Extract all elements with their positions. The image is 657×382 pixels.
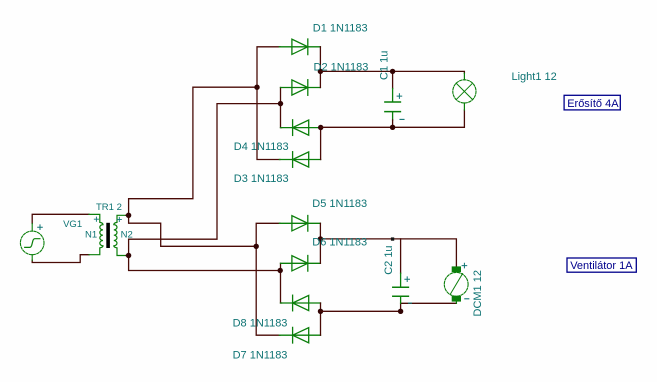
diode D6 1N1183 bbox=[281, 256, 321, 272]
capacitor C2 plates bbox=[393, 287, 409, 296]
wire D4 anode up to DC- node bbox=[320, 128, 322, 160]
wire VG1 bottom loop to TR1 primary bottom bbox=[32, 255, 89, 263]
wire N2 bottom to bridge2 AC2 bbox=[129, 256, 281, 271]
node C2 top (square) bbox=[391, 237, 394, 240]
diode D7 1N1183 bbox=[281, 295, 321, 311]
wire C2 junction to motor bottom bbox=[401, 303, 457, 311]
svg-text:D7 1N1183: D7 1N1183 bbox=[233, 350, 288, 362]
wire D8 anode up to DC- node bbox=[320, 311, 322, 335]
N2 plus mark bbox=[117, 217, 121, 221]
N1 plus mark bbox=[94, 217, 98, 221]
diode D5 1N1183 bbox=[279, 216, 320, 232]
transformer TR1 primary winding N1 bbox=[89, 214, 103, 254]
wire D6 cathode up to DC+ node bbox=[319, 239, 321, 263]
VG1 plus mark bbox=[38, 225, 43, 230]
motor plus mark bbox=[462, 263, 467, 268]
wire bridge2 AC2 rail to D6 and D7 bbox=[281, 263, 282, 303]
wire D2 cathode up to DC+ node bbox=[319, 71, 321, 87]
wire N2 bottom to bridge1 AC2 bbox=[126, 104, 281, 256]
node bridge1 AC2 bbox=[278, 101, 283, 106]
capacitor C2 bottom lead bbox=[400, 297, 402, 303]
wire D5 cathode down to DC+ node bbox=[319, 223, 321, 239]
C2 plus mark bbox=[405, 277, 410, 282]
transformer TR1 core bbox=[106, 223, 110, 248]
voltage source VG1 bbox=[20, 224, 44, 261]
wire bridge2 AC1 rail to D5 and D8 bbox=[256, 223, 280, 335]
capacitor C1 top lead bbox=[392, 71, 394, 88]
node C2 bottom bbox=[398, 309, 403, 314]
svg-text:D2 1N1183: D2 1N1183 bbox=[314, 62, 369, 74]
wire bridge1 AC2 rail to D2 and D3 bbox=[281, 88, 282, 128]
svg-text:DCM1 12: DCM1 12 bbox=[472, 270, 484, 316]
node C1 bottom bbox=[390, 125, 395, 130]
wire bridge1 AC1 rail to D1 and D4 bbox=[257, 47, 280, 160]
lamp Light1 bbox=[453, 73, 476, 110]
node C1 top bbox=[390, 69, 395, 74]
svg-text:TR1 2: TR1 2 bbox=[96, 202, 122, 213]
wire VG1 top to TR1 primary bbox=[32, 214, 89, 223]
text box Ventilátor 1A bbox=[567, 258, 636, 272]
C2 minus mark bbox=[409, 302, 412, 304]
node bridge2 AC1 bbox=[254, 244, 259, 249]
node bridge1 AC1 bbox=[254, 85, 259, 90]
svg-text:D8 1N1183: D8 1N1183 bbox=[233, 317, 288, 329]
svg-text:VG1: VG1 bbox=[63, 219, 82, 230]
wire D1 cathode down to DC+ node bbox=[319, 47, 321, 72]
node bridge2 DC- bbox=[318, 309, 323, 314]
text box Erősítő 4A bbox=[564, 95, 620, 110]
wire bridge2 DC- rail to C2 bbox=[321, 310, 401, 312]
node bridge2 AC2 bbox=[278, 268, 283, 273]
svg-text:D6 1N1183: D6 1N1183 bbox=[312, 237, 367, 249]
svg-text:Erősítő 4A: Erősítő 4A bbox=[567, 98, 619, 110]
diode D3 1N1183 bbox=[281, 120, 321, 136]
wire D7 anode down to DC- node bbox=[320, 303, 322, 311]
transformer TR1 secondary winding N2 bbox=[114, 215, 127, 255]
svg-text:C1 1u: C1 1u bbox=[379, 51, 391, 80]
motor DCM1 bbox=[444, 266, 468, 303]
C1 plus mark bbox=[397, 94, 402, 99]
capacitor C1 bottom lead bbox=[392, 112, 394, 120]
node bridge1 DC- bbox=[318, 125, 323, 130]
svg-text:N1: N1 bbox=[85, 229, 97, 240]
wire N2 top to bridge2 AC1 bbox=[129, 215, 257, 246]
wire bridge1 DC+ rail to lamp bbox=[320, 71, 464, 73]
diode D4 1N1183 bbox=[279, 152, 320, 168]
wire bridge2 DC+ rail to motor top bbox=[320, 239, 456, 267]
svg-text:C2 1u: C2 1u bbox=[383, 245, 395, 274]
svg-text:D3 1N1183: D3 1N1183 bbox=[234, 173, 289, 185]
node bridge1 DC+ bbox=[318, 69, 323, 74]
svg-text:Ventilátor 1A: Ventilátor 1A bbox=[570, 260, 633, 272]
wire N2 top to bridge1 AC1 bbox=[126, 87, 257, 215]
C1 minus mark bbox=[400, 118, 404, 120]
diode D2 1N1183 bbox=[281, 80, 321, 96]
diode D8 1N1183 bbox=[279, 327, 320, 343]
wire bridge1 DC- rail to lamp bbox=[321, 110, 465, 127]
node N2 top junction bbox=[126, 213, 131, 218]
svg-text:Light1 12: Light1 12 bbox=[512, 71, 557, 83]
svg-text:D5 1N1183: D5 1N1183 bbox=[312, 198, 367, 210]
node bridge2 DC+ bbox=[318, 236, 323, 241]
motor minus mark bbox=[465, 298, 469, 300]
svg-text:D1 1N1183: D1 1N1183 bbox=[313, 22, 368, 34]
diode D1 1N1183 bbox=[279, 39, 320, 55]
capacitor C2 top lead bbox=[400, 239, 402, 273]
svg-text:D4 1N1183: D4 1N1183 bbox=[234, 141, 289, 153]
capacitor C1 plates bbox=[385, 102, 401, 112]
node N2 bottom junction bbox=[126, 253, 131, 258]
